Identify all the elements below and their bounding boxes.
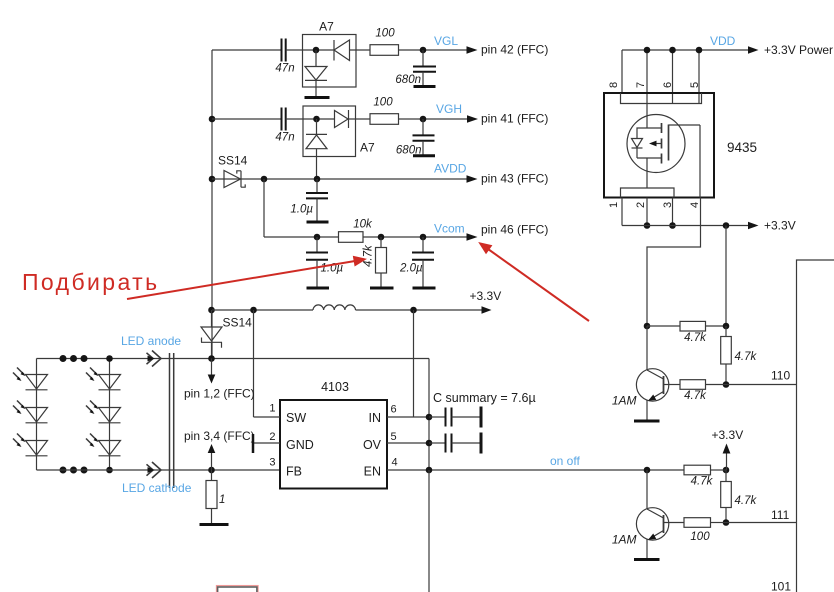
diode D4 vertical (points up) <box>306 119 327 179</box>
svg-text:680n: 680n <box>395 74 421 86</box>
svg-text:4.7k: 4.7k <box>684 332 707 344</box>
svg-text:GND: GND <box>286 438 314 452</box>
resistor R4 4.7k vertical <box>363 237 387 288</box>
resistor R11 100 base <box>664 518 726 543</box>
wire pin3 stub (9435) <box>672 198 674 226</box>
svg-text:OV: OV <box>363 438 382 452</box>
capacitor C2 680n <box>395 50 436 86</box>
wire pin1 SW <box>254 416 281 418</box>
capacitor C9 summary bottom <box>429 433 481 454</box>
node LED anode bus <box>208 355 215 362</box>
capacitor C8 summary top <box>429 407 481 428</box>
wire pin6 stub (9435) <box>672 50 674 104</box>
MOSFET Q3 gate bar <box>668 125 670 161</box>
resistor R8 4.7k base <box>664 380 726 402</box>
diode pack U2 A7 (VGH pump) <box>303 106 375 157</box>
node string B top <box>106 355 113 362</box>
svg-text:+3.3V: +3.3V <box>470 289 502 303</box>
node VGH output <box>420 116 427 123</box>
LED D10 <box>86 368 121 390</box>
wire 111 row <box>726 522 797 524</box>
node IN caps <box>426 414 433 421</box>
continuation dots anode rail <box>60 355 88 362</box>
svg-text:1AM: 1AM <box>612 394 637 408</box>
IC U4 9435 <box>604 93 757 198</box>
MOSFET Q3 body diode <box>632 139 643 149</box>
svg-text:A7: A7 <box>360 141 375 155</box>
node bus row3 AVDD <box>209 176 216 183</box>
wire VGL row segment 3 <box>350 49 371 51</box>
LED D8 <box>13 401 48 423</box>
ground under D2 <box>305 96 330 99</box>
node 110 <box>723 381 730 388</box>
MOSFET Q3 left loop <box>637 128 647 158</box>
svg-text:6: 6 <box>662 82 674 88</box>
IC U3 4103 <box>280 380 387 489</box>
node VGL output <box>420 47 427 54</box>
diode D1 horizontal (points left) <box>334 40 350 61</box>
wire VDD rail <box>622 49 750 51</box>
ground under C6 <box>307 287 330 290</box>
node OV caps <box>426 440 433 447</box>
svg-text:101: 101 <box>771 580 791 592</box>
svg-text:9435: 9435 <box>727 140 757 155</box>
ground Q1 emitter <box>634 420 660 423</box>
wire VGL row segment 4 <box>399 49 469 51</box>
resistor R10 4.7k vertical <box>721 470 758 523</box>
arrow VDD <box>748 46 759 54</box>
wire pin2 GND with connector bar <box>253 434 280 453</box>
svg-text:4: 4 <box>689 202 701 208</box>
capacitor C7 2.0u <box>399 237 434 288</box>
svg-text:4.7k: 4.7k <box>735 351 758 363</box>
svg-text:LED cathode: LED cathode <box>122 481 192 495</box>
ground under C7 <box>413 287 436 290</box>
resistor R1 100 <box>370 28 399 56</box>
svg-text:pin 3,4 (FFC): pin 3,4 (FFC) <box>184 429 255 443</box>
svg-text:A7: A7 <box>319 20 334 34</box>
wire LED cathode row / FB <box>37 469 281 471</box>
svg-text:4.7k: 4.7k <box>735 495 758 507</box>
node AVDD cap <box>314 176 321 183</box>
svg-text:8: 8 <box>608 82 620 88</box>
arrow to pin 42 <box>467 46 478 54</box>
FFC cable lines <box>170 353 174 488</box>
svg-text:+3.3V Power su: +3.3V Power su <box>764 43 834 57</box>
chevron anode cable marker <box>147 351 162 367</box>
wire VGL row segment 1 <box>212 49 281 51</box>
svg-text:100: 100 <box>375 28 395 40</box>
wire pin2 stub (9435) <box>646 198 648 226</box>
svg-text:5: 5 <box>689 82 701 88</box>
wire pin6 IN <box>387 416 429 418</box>
svg-text:pin 41 (FFC): pin 41 (FFC) <box>481 111 548 125</box>
arrow to pin 43 <box>467 175 478 183</box>
arrow pin 1,2 down <box>208 359 216 384</box>
arrow pin 3,4 up <box>208 444 216 470</box>
wire VGH row segment 1 <box>212 118 281 120</box>
resistor R2 100 <box>370 97 399 125</box>
wire anode corner drop to IN node <box>428 359 430 471</box>
pin header top inner <box>621 93 702 104</box>
svg-text:1: 1 <box>608 202 620 208</box>
diode D6 SS14 vertical <box>201 310 252 359</box>
MOSFET Q3 drain path <box>647 104 661 129</box>
wire pin5 stub (9435) <box>698 50 700 104</box>
wire pin4 gate path to Q1 <box>647 198 701 327</box>
capacitor C4 680n <box>396 119 435 157</box>
svg-text:pin 42 (FFC): pin 42 (FFC) <box>481 43 548 57</box>
svg-text:+3.3V: +3.3V <box>712 428 744 442</box>
arrow to pin 46 <box>467 233 478 241</box>
wire pin5 OV <box>387 442 429 444</box>
ground Q2 emitter <box>634 558 660 561</box>
svg-text:2: 2 <box>269 431 275 443</box>
svg-text:VGL: VGL <box>434 34 458 48</box>
node VGL pump <box>313 47 320 54</box>
svg-text:1.0µ: 1.0µ <box>290 204 313 216</box>
node divider2 top <box>723 467 730 474</box>
wire VGH row segment 4 <box>399 118 469 120</box>
node pin3 rail <box>669 222 676 229</box>
svg-text:4.7k: 4.7k <box>684 390 707 402</box>
wire Vcom left drop <box>263 179 265 237</box>
capacitor C3 47n <box>275 108 294 144</box>
arrow +3.3V row5 <box>482 306 492 313</box>
svg-text:Подбирать: Подбирать <box>22 269 159 295</box>
wire Vcom row <box>264 236 468 238</box>
node AVDD-Vcom branch <box>261 176 268 183</box>
node pin5 <box>696 47 703 54</box>
capacitor C5 1.0u <box>290 179 328 222</box>
LED D7 <box>13 368 48 390</box>
node bus row2 <box>209 116 216 123</box>
net on off row to Q2 (node) <box>644 467 651 474</box>
svg-text:47n: 47n <box>275 132 294 144</box>
svg-text:LED anode: LED anode <box>121 334 181 348</box>
resistor R9 4.7k <box>684 465 714 487</box>
svg-text:2: 2 <box>635 202 647 208</box>
wire +3.3V rail bottom <box>622 225 750 227</box>
node EN <box>426 467 433 474</box>
pin header bottom inner <box>621 188 675 198</box>
svg-text:7: 7 <box>635 82 647 88</box>
transistor Q2 1AM <box>612 470 669 560</box>
svg-text:4: 4 <box>392 457 398 469</box>
node divider top <box>723 323 730 330</box>
arrow +3.3V rail <box>748 222 759 230</box>
wire +3.3V drop to divider <box>725 226 727 327</box>
MOSFET Q3 source path <box>637 158 661 188</box>
resistor R6 4.7k <box>647 321 726 344</box>
resistor R3 10k <box>339 218 374 242</box>
svg-text:+3.3V: +3.3V <box>764 219 796 233</box>
wire +3.3V row segment 2 <box>356 309 483 311</box>
node IN branch <box>410 307 417 314</box>
ground under C2 <box>414 85 436 88</box>
node LED cathode bus <box>208 467 215 474</box>
svg-text:2.0µ: 2.0µ <box>399 263 423 275</box>
svg-text:4.7k: 4.7k <box>691 476 714 488</box>
svg-text:pin 46 (FFC): pin 46 (FFC) <box>481 222 548 236</box>
node Vcom cap1 <box>314 234 321 241</box>
wire VGL row segment 2 <box>286 49 334 51</box>
node pin2 rail <box>644 222 651 229</box>
LED D9 <box>13 434 48 456</box>
wire pin8 drop <box>621 50 623 93</box>
wire AVDD row <box>212 178 468 180</box>
node pin7 <box>644 47 651 54</box>
node +3.3V rail branch <box>723 222 730 229</box>
svg-text:47n: 47n <box>275 63 294 75</box>
svg-text:1AM: 1AM <box>612 533 637 547</box>
wire LED anode row <box>37 358 430 360</box>
MOSFET Q3 channel ticks <box>661 123 663 164</box>
svg-text:4.7k: 4.7k <box>363 244 375 267</box>
svg-text:4103: 4103 <box>321 380 349 394</box>
svg-text:pin 1,2 (FFC): pin 1,2 (FFC) <box>184 387 255 401</box>
ground under C4 <box>413 154 435 157</box>
wire R9 to node <box>711 469 727 471</box>
resistor R5 1 <box>206 470 225 524</box>
svg-text:111: 111 <box>771 508 790 522</box>
wire LED string A <box>36 359 38 471</box>
MOSFET Q3 gate wire to pin4 <box>669 125 701 198</box>
diode D3 horizontal (points right) <box>335 110 349 128</box>
node Vcom divider <box>378 234 385 241</box>
diode D2 vertical (points down) <box>305 50 327 97</box>
diode pack U1 A7 (VGL pump) <box>303 20 357 88</box>
svg-text:FB: FB <box>286 465 302 479</box>
node bus row5 <box>208 307 215 314</box>
node Vcom cap2 <box>420 234 427 241</box>
node 111 <box>723 519 730 526</box>
wire VGH row segment 2 <box>286 118 335 120</box>
svg-text:1: 1 <box>269 403 275 415</box>
arrow +3.3V Q2 up <box>723 444 731 471</box>
diode D5 SS14 <box>218 154 248 188</box>
svg-text:EN: EN <box>364 465 381 479</box>
annotation arrow 2 (to pin 46) <box>478 242 589 321</box>
node VGH pump <box>313 116 320 123</box>
svg-text:100: 100 <box>373 97 393 109</box>
wire pin7 stub <box>646 50 648 104</box>
chevron cathode cable marker <box>147 462 162 478</box>
wire VGH row segment 3 <box>349 118 371 120</box>
wire left SW bus <box>211 50 213 359</box>
capacitor C1 47n <box>275 39 294 75</box>
svg-text:AVDD: AVDD <box>434 162 467 176</box>
svg-text:on off: on off <box>550 454 580 468</box>
wire SW drop <box>253 310 255 417</box>
MOSFET Q3 body stub with arrow <box>649 141 661 147</box>
svg-text:IN: IN <box>369 411 382 425</box>
resistor R7 4.7k vertical <box>721 326 758 385</box>
arrow to pin 41 <box>467 115 478 123</box>
node string B bottom <box>106 467 113 474</box>
svg-text:Vcom: Vcom <box>434 221 465 235</box>
ground under R4 <box>370 287 394 290</box>
svg-text:100: 100 <box>690 531 710 543</box>
node SW branch <box>250 307 257 314</box>
wire pin4 EN row <box>387 469 684 471</box>
svg-text:5: 5 <box>391 431 397 443</box>
wire EN drop to bottom <box>428 470 430 592</box>
LED D11 <box>86 401 121 423</box>
svg-text:1: 1 <box>219 494 225 506</box>
svg-text:SW: SW <box>286 411 306 425</box>
svg-text:SS14: SS14 <box>218 154 248 168</box>
svg-text:pin 43 (FFC): pin 43 (FFC) <box>481 171 548 185</box>
svg-text:110: 110 <box>771 369 790 383</box>
annotation arrow 1 (to R4) <box>127 256 367 299</box>
svg-text:6: 6 <box>391 404 397 416</box>
svg-text:10k: 10k <box>353 218 373 230</box>
ground under C5 <box>307 221 329 224</box>
svg-text:VGH: VGH <box>436 102 462 116</box>
wire +3.3V row segment 1 <box>212 309 313 311</box>
node pin6 <box>669 47 676 54</box>
inductor L1 <box>313 305 356 310</box>
svg-text:3: 3 <box>269 457 275 469</box>
svg-text:C summary = 7.6µ: C summary = 7.6µ <box>433 391 536 405</box>
annotation box red <box>217 586 259 592</box>
wire pin1 drop (9435) <box>621 198 623 226</box>
node Q1 collector top <box>644 323 651 330</box>
wire LED string B <box>109 359 111 471</box>
transistor Q1 1AM <box>612 326 669 421</box>
ground under R5 <box>200 523 229 526</box>
svg-text:VDD: VDD <box>710 34 736 48</box>
MOSFET Q3 body circle <box>627 115 685 173</box>
svg-text:SS14: SS14 <box>223 316 253 330</box>
wire IN drop <box>413 310 415 417</box>
capacitor C6 1.0u <box>306 237 343 288</box>
wire right edge bus <box>797 260 834 592</box>
continuation dots cathode rail <box>60 467 88 474</box>
LED D12 <box>86 434 121 456</box>
wire 110 row <box>726 384 797 386</box>
